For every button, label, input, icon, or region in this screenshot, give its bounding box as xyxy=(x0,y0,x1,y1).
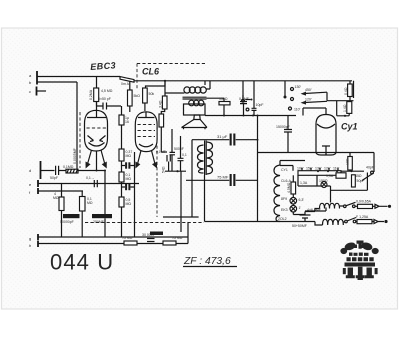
svg-text:100′: 100′ xyxy=(297,167,304,171)
wire cap2 stub xyxy=(104,171,106,238)
plug 1 xyxy=(375,204,388,208)
resistor cluster vertical xyxy=(352,175,356,187)
capacitor inside box xyxy=(186,179,258,181)
svg-text:≈5 MΩ: ≈5 MΩ xyxy=(122,236,133,240)
resistor R4 xyxy=(119,172,124,182)
wire top rail xyxy=(134,80,352,82)
terminal h plate xyxy=(37,241,39,248)
svg-text:130′: 130′ xyxy=(315,167,322,171)
wire dropper top xyxy=(280,166,293,171)
svg-text:EK3: EK3 xyxy=(281,208,288,212)
output transformer primary xyxy=(184,87,190,93)
svg-text:250MF: 250MF xyxy=(93,220,104,224)
terminal a/b plate xyxy=(36,71,38,85)
svg-text:MΩ: MΩ xyxy=(126,202,132,206)
svg-text:1′: 1′ xyxy=(299,206,302,210)
wire cathode CL6 column xyxy=(164,81,166,96)
tube CY1 cathode xyxy=(322,146,330,155)
selector arrow 2 xyxy=(303,101,328,102)
wire hv junction xyxy=(205,115,296,117)
box lower bottom xyxy=(205,221,278,223)
resistor above 54 xyxy=(162,96,167,109)
fuse 2 xyxy=(357,220,372,224)
svg-text:50000pF: 50000pF xyxy=(60,220,74,224)
resistor interstage R2 xyxy=(119,115,124,125)
wire d to tubes xyxy=(78,170,105,172)
resistor right of CL6 xyxy=(159,114,164,127)
wire f line xyxy=(38,190,83,192)
svg-text:CL6: CL6 xyxy=(142,67,160,77)
svg-text:d: d xyxy=(29,168,31,173)
wire cap junction down xyxy=(121,106,123,149)
node cluster xyxy=(176,170,178,172)
svg-text:54Ω: 54Ω xyxy=(162,166,166,173)
output transformer secondary xyxy=(189,100,195,106)
tube EBC3 envelope xyxy=(85,110,108,151)
fuse 1 on h rail xyxy=(124,241,137,245)
switch 1 xyxy=(344,205,347,208)
terminal g plate xyxy=(37,234,39,240)
resistor 4,5MA vertical xyxy=(291,182,296,194)
choke coil 2 xyxy=(323,219,344,225)
resistor R3 xyxy=(119,149,124,161)
network box xyxy=(298,173,367,203)
wire R6 xyxy=(81,191,83,237)
svg-text:0,0005MF: 0,0005MF xyxy=(73,148,77,164)
svg-text:3,4Ω: 3,4Ω xyxy=(158,100,162,108)
wire choke feed xyxy=(305,208,326,212)
primary tap resistor bar xyxy=(298,171,341,176)
speaker magnet xyxy=(194,115,200,120)
dashed screen CL6 xyxy=(156,124,158,217)
dial lamp 2 xyxy=(290,205,297,212)
wire choke2 left xyxy=(277,222,323,226)
wire block vertical 1 xyxy=(242,81,244,99)
svg-text:120′: 120′ xyxy=(305,98,312,102)
resistor above CL6 screen xyxy=(128,90,133,106)
wire g rail xyxy=(38,236,188,238)
wire vertical x180.5 xyxy=(180,136,182,158)
svg-text:1,4Ω: 1,4Ω xyxy=(343,104,347,112)
fuse 1 xyxy=(358,204,373,208)
svg-text:8F9: 8F9 xyxy=(281,197,287,201)
IF coil vertical xyxy=(198,145,204,173)
resistor right edge 2 xyxy=(347,102,352,114)
capacitor cathode CL6 xyxy=(167,155,170,171)
mains selector feed xyxy=(284,81,286,96)
svg-text:1,3A: 1,3A xyxy=(300,181,308,185)
wire antenna rail a xyxy=(37,76,120,78)
svg-text:50pF: 50pF xyxy=(50,176,58,180)
svg-text:MΩ: MΩ xyxy=(126,177,132,181)
svg-text:130′: 130′ xyxy=(295,85,302,89)
tube EBC3 dashed grid xyxy=(87,127,107,129)
switch contact right xyxy=(371,171,374,174)
dial lamp 1 xyxy=(290,197,297,204)
svg-text:4,5MΩ: 4,5MΩ xyxy=(287,182,291,193)
svg-text:044 U: 044 U xyxy=(50,250,114,275)
tube CY1 envelope xyxy=(316,115,336,156)
lamp switch circle xyxy=(321,182,327,188)
switch arrow right xyxy=(362,173,374,181)
logo emblem xyxy=(340,241,378,281)
svg-text:45Ω: 45Ω xyxy=(355,174,362,178)
svg-text:EBC3: EBC3 xyxy=(90,60,116,72)
svg-text:0,2MA: 0,2MA xyxy=(89,89,93,100)
wire selector right xyxy=(327,92,354,101)
wire box right column xyxy=(257,116,259,222)
selector arrow 1 xyxy=(303,92,328,93)
svg-text:10Ω: 10Ω xyxy=(346,158,350,165)
wire CY1 top xyxy=(303,108,326,116)
tube CL6 dashed grid xyxy=(138,125,156,137)
wire 54 down xyxy=(161,109,167,152)
wire CL6 top xyxy=(145,81,165,111)
svg-text:150′: 150′ xyxy=(306,167,313,171)
box lower left edge xyxy=(163,171,205,232)
wire dropper to CY vertical xyxy=(280,161,305,166)
capacitor on e line xyxy=(94,180,97,187)
tube CL6 pin arrows xyxy=(138,151,156,165)
terminal e plate xyxy=(37,180,39,187)
wire d line xyxy=(41,170,55,172)
comp between contacts xyxy=(246,99,251,101)
wire det1 xyxy=(223,105,225,116)
svg-text:0,4Ω: 0,4Ω xyxy=(344,87,348,95)
fuse 2 on h rail xyxy=(163,241,176,245)
svg-text:0,9/0,65A: 0,9/0,65A xyxy=(356,200,372,204)
wire grid cap EBC3 xyxy=(96,77,98,111)
capacitor small right xyxy=(178,158,184,171)
contact circle v1 xyxy=(242,99,245,102)
wire CY1 bottom xyxy=(258,153,375,173)
svg-text:16: 16 xyxy=(125,120,129,124)
electrolytic filter cap xyxy=(300,212,311,222)
svg-text:40pF: 40pF xyxy=(366,166,374,170)
wire block vertical 2 xyxy=(252,81,257,116)
wire lamp column xyxy=(293,194,305,215)
svg-text:0m A: 0m A xyxy=(121,82,130,86)
svg-text:5kΩ: 5kΩ xyxy=(134,94,141,98)
plug 2 xyxy=(374,220,384,224)
svg-text:ZF : 473,6: ZF : 473,6 xyxy=(183,256,231,267)
svg-text:50k: 50k xyxy=(149,92,155,96)
wire fuse2 to plug xyxy=(356,221,374,223)
tube CL6 envelope xyxy=(135,112,157,152)
switch 2 xyxy=(345,220,348,223)
resistor R6 xyxy=(80,197,86,212)
capacitor on g rail xyxy=(147,239,155,242)
svg-text:5×50 pF: 5×50 pF xyxy=(98,97,111,101)
svg-text:2OL2: 2OL2 xyxy=(278,217,287,221)
svg-text:120′: 120′ xyxy=(324,167,331,171)
wire resistor to tube xyxy=(96,102,98,107)
svg-text:CY1: CY1 xyxy=(281,168,288,172)
resistor right low xyxy=(348,157,353,171)
svg-text:10pF: 10pF xyxy=(256,103,264,107)
wire R4 down xyxy=(122,166,135,198)
dashed bottom line xyxy=(85,222,204,224)
wire R5 xyxy=(61,184,63,238)
resistor antenna series xyxy=(120,77,134,83)
heater dropper coil xyxy=(274,165,280,222)
electrolytic cap 2 xyxy=(92,214,112,218)
svg-text:MΩ: MΩ xyxy=(126,154,132,158)
capacitor pickup d xyxy=(56,166,66,175)
svg-text:5000F: 5000F xyxy=(174,147,184,151)
svg-text:0,1MΩ: 0,1MΩ xyxy=(63,165,74,169)
wire transformer drop xyxy=(204,81,206,85)
selector contact 2 xyxy=(291,98,294,101)
svg-text:MΩ: MΩ xyxy=(53,196,59,200)
output transformer core xyxy=(183,97,207,99)
tube CL6 anode xyxy=(139,144,153,147)
svg-text:150Ω: 150Ω xyxy=(219,97,228,101)
dashed screen line vertical xyxy=(79,112,81,168)
tube CY1 filament arc xyxy=(317,124,335,128)
wire bottom right elbow xyxy=(187,222,189,244)
selector contact 3 xyxy=(289,107,292,110)
svg-text:6,3′: 6,3′ xyxy=(299,198,305,202)
svg-text:F 1,25A: F 1,25A xyxy=(356,215,369,219)
svg-text:c: c xyxy=(29,89,31,94)
svg-text:h: h xyxy=(29,243,31,248)
wire c stub xyxy=(37,90,46,92)
node det junction xyxy=(223,115,225,117)
svg-text:110′: 110′ xyxy=(294,108,301,112)
tube EBC3 diode plates xyxy=(88,136,106,147)
wire e line xyxy=(38,183,139,185)
wire anode cap line xyxy=(192,139,258,141)
wire vertical x172 xyxy=(171,129,173,152)
svg-text:1,3A: 1,3A xyxy=(326,174,334,178)
speaker frame xyxy=(184,104,206,115)
wire EBC3 cathode down xyxy=(96,151,98,170)
svg-text:MΩ: MΩ xyxy=(87,201,93,205)
svg-text:0,1: 0,1 xyxy=(182,153,187,157)
svg-text:CL6-A: CL6-A xyxy=(281,179,292,183)
component box right cluster xyxy=(336,173,346,178)
resistor R5 xyxy=(59,197,64,211)
wire IF top xyxy=(191,140,193,217)
svg-text:4,5 MΩ: 4,5 MΩ xyxy=(101,89,113,93)
wire junction y171 xyxy=(165,170,186,172)
svg-text:75 MF: 75 MF xyxy=(217,175,229,180)
wire tap bar ticks xyxy=(302,168,338,171)
terminal d plate xyxy=(40,161,42,179)
capacitor 5000F xyxy=(170,152,176,171)
underline ZF xyxy=(183,266,237,268)
wire sec to detector xyxy=(207,98,225,101)
dashed box CL6 xyxy=(137,64,207,91)
wire vertical x77 xyxy=(76,82,78,170)
choke coil 1 xyxy=(320,203,340,208)
svg-text:≈5 MΩ: ≈5 MΩ xyxy=(172,236,183,240)
tube CL6 grid line xyxy=(138,112,155,118)
wire h rail xyxy=(38,243,188,245)
wire right edge links xyxy=(337,81,354,116)
svg-text:g: g xyxy=(29,236,31,241)
capacitor coupling EBC3 xyxy=(97,103,122,110)
wire fuse1 to plug xyxy=(355,205,375,207)
terminal c plate xyxy=(36,87,38,96)
svg-text:31 μF: 31 μF xyxy=(217,134,228,139)
tube EBC3 pin arrows xyxy=(88,150,105,164)
electrolytic cap 1 xyxy=(63,214,80,218)
svg-text:0,1MF: 0,1MF xyxy=(156,150,166,154)
resistor right edge 1 xyxy=(348,84,353,97)
svg-text:50+50MF: 50+50MF xyxy=(292,224,307,228)
svg-text:Cy1: Cy1 xyxy=(341,122,358,132)
wire right low resistor xyxy=(349,153,351,172)
wire rail b xyxy=(37,81,77,83)
contact circle v2 xyxy=(246,108,249,111)
speaker cone xyxy=(182,120,208,130)
tube EBC3 grid line xyxy=(87,111,106,118)
capacitor C mid xyxy=(122,161,135,166)
svg-text:450′: 450′ xyxy=(305,88,312,92)
resistor CL6 grid stopper xyxy=(143,88,148,103)
wire screen resistor xyxy=(129,81,131,112)
terminal f plate xyxy=(37,188,39,194)
svg-text:0,1→: 0,1→ xyxy=(86,176,94,180)
selector contact 1 xyxy=(291,88,294,91)
resistor R grid EBC3 xyxy=(94,88,99,102)
wire choke1 ends xyxy=(305,206,343,212)
coil pickup hatched xyxy=(66,169,78,173)
